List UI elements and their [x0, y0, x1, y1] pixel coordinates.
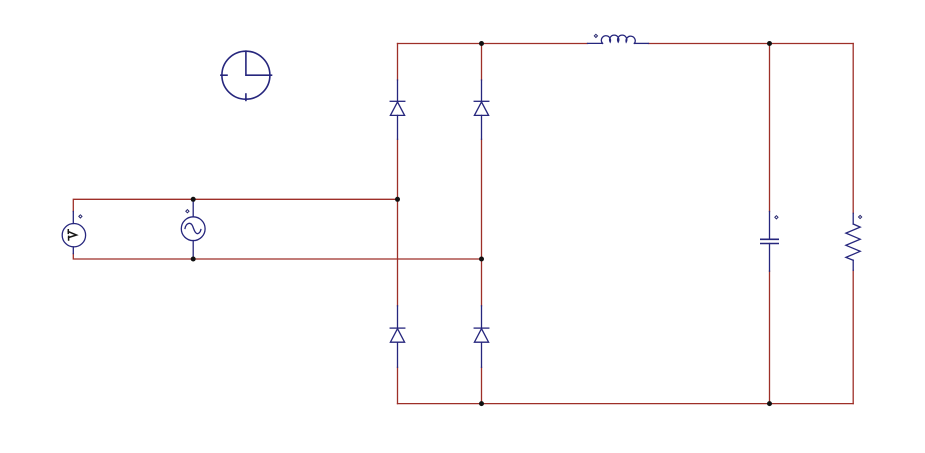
- wire left bridge column middle: [397, 139, 399, 305]
- wire input top (source to bridge left column): [73, 199, 397, 211]
- junction bridge left mid: [395, 197, 400, 202]
- ammeter probe: [62, 212, 85, 254]
- AC source VS1: [181, 199, 205, 259]
- junction top rail at right column: [479, 41, 484, 46]
- junction AC top: [191, 197, 196, 202]
- diode D4 bottom-right: [474, 306, 489, 368]
- wire left bridge column lower: [397, 367, 399, 403]
- wire resistor column upper: [852, 44, 854, 214]
- wire capacitor column upper: [769, 44, 771, 212]
- AC source polarity marker: [186, 210, 189, 213]
- inductor polarity marker: [594, 34, 597, 37]
- capacitor C1: [761, 212, 778, 272]
- wire top rail left (node P to inductor): [398, 43, 588, 45]
- junction bridge right mid: [479, 257, 484, 262]
- wire input bottom (source to bridge right column): [73, 254, 481, 259]
- wire left bridge column upper: [397, 44, 399, 81]
- diode D3 bottom-left: [390, 306, 405, 368]
- wire resistor column lower: [852, 270, 854, 403]
- resistor R1: [846, 213, 860, 270]
- junction AC bottom: [191, 257, 196, 262]
- wire right bridge column middle: [481, 139, 483, 305]
- junction bottom rail at right column: [479, 401, 484, 406]
- diode D1 top-left: [390, 80, 405, 139]
- diode D2 top-right: [474, 80, 489, 139]
- ammeter arrow: [68, 230, 76, 240]
- capacitor polarity marker: [775, 216, 778, 219]
- clock element: [221, 51, 272, 100]
- wire capacitor column lower: [769, 271, 771, 403]
- wire bottom rail: [398, 403, 854, 405]
- ammeter polarity marker: [79, 215, 82, 218]
- wire right bridge column lower: [481, 367, 483, 403]
- junction bottom rail at capacitor: [767, 401, 772, 406]
- inductor L1: [588, 35, 649, 43]
- wire right bridge column upper: [481, 44, 483, 81]
- wire top rail right (inductor to resistor corner): [649, 43, 854, 45]
- junction top rail at capacitor: [767, 41, 772, 46]
- resistor polarity marker: [859, 215, 862, 218]
